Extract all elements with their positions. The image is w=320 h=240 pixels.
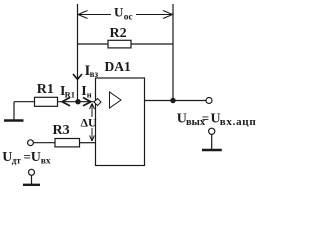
resistor R2 xyxy=(108,40,131,48)
terminal circle R3 input xyxy=(28,140,34,146)
svg-text:U: U xyxy=(114,5,124,20)
svg-text:ΔU: ΔU xyxy=(81,116,98,130)
svg-text:вх: вх xyxy=(41,157,51,167)
wire left feedback vertical xyxy=(77,4,79,102)
ground bottom-right terminal xyxy=(209,128,215,134)
svg-text:вх.ацп: вх.ацп xyxy=(220,116,257,128)
svg-text:дт: дт xyxy=(12,156,22,166)
ground left xyxy=(13,102,15,120)
svg-text:н: н xyxy=(87,90,92,100)
svg-text:DA1: DA1 xyxy=(105,59,131,74)
op-amp triangle xyxy=(110,92,122,108)
svg-text:=: = xyxy=(202,111,209,126)
svg-text:ос: ос xyxy=(124,13,133,23)
op-amp U=DA1 body xyxy=(96,78,145,166)
input diamond pin xyxy=(94,99,101,106)
svg-text:R3: R3 xyxy=(53,123,70,138)
dimension dU xyxy=(90,104,95,142)
current arrow I_vz on left vertical xyxy=(73,74,82,79)
ground bottom-left terminal xyxy=(29,169,35,175)
wire main input xyxy=(14,101,35,103)
current arrow I_R1 xyxy=(62,98,70,106)
resistor R3 xyxy=(55,139,80,147)
node B output junction dot xyxy=(170,98,175,103)
svg-text:U: U xyxy=(31,150,41,165)
wire output xyxy=(145,100,207,102)
resistor R1 xyxy=(35,97,58,106)
wire R1 to op-amp xyxy=(58,101,95,103)
wire R3 to op-amp xyxy=(80,142,96,144)
svg-text:R1: R1 xyxy=(65,90,75,100)
svg-text:R1: R1 xyxy=(37,82,54,97)
dimension line U_oc xyxy=(78,11,173,19)
svg-text:=: = xyxy=(24,149,31,164)
wire R2 branch left xyxy=(78,43,109,45)
current arrow I_n xyxy=(83,98,91,106)
svg-text:R2: R2 xyxy=(110,26,127,41)
node A junction dot xyxy=(75,99,80,104)
wire right feedback vertical xyxy=(172,4,174,101)
terminal circle output xyxy=(206,98,212,104)
svg-text:U: U xyxy=(2,150,12,165)
wire R2 branch right xyxy=(131,43,173,45)
wire R3 left xyxy=(33,142,55,144)
svg-text:вз: вз xyxy=(90,69,99,79)
